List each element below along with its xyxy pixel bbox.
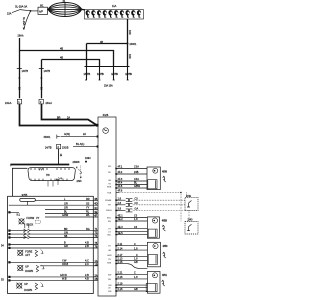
svg-text:1994: 1994 bbox=[85, 157, 91, 160]
pin arrows 4x bbox=[58, 178, 62, 180]
svg-text:1/07B: 1/07B bbox=[125, 73, 132, 76]
svg-text:GRW: GRW bbox=[62, 214, 69, 217]
motor M2 rows bbox=[116, 218, 147, 222]
wire splice2 down bbox=[58, 149, 60, 165]
svg-text:4.B: 4.B bbox=[85, 278, 89, 281]
motor 4/53 M3 bbox=[147, 242, 160, 266]
svg-text:4F.6: 4F.6 bbox=[118, 190, 123, 193]
svg-text:1.8: 1.8 bbox=[134, 276, 138, 279]
connector 7/8 housing bbox=[28, 168, 75, 181]
svg-text:4B: 4B bbox=[60, 56, 63, 59]
wire L3 bbox=[42, 60, 100, 67]
terminal ticks on 4/26 right edge bbox=[115, 169, 117, 292]
dashed ref 2/93 bbox=[80, 166, 82, 178]
node splice dot bbox=[30, 10, 32, 12]
svg-text:1.8: 1.8 bbox=[134, 247, 138, 250]
wire bundle to fusebox bbox=[82, 8, 85, 10]
svg-text:1/07B: 1/07B bbox=[84, 73, 91, 76]
internal bus bbox=[9, 204, 94, 206]
svg-text:2A: 2A bbox=[67, 116, 70, 119]
faint note above 4/26 bbox=[104, 85, 113, 88]
svg-text:DOWN: DOWN bbox=[25, 270, 33, 273]
svg-text:2.11: 2.11 bbox=[118, 243, 123, 246]
svg-text:SL-29A-3A: SL-29A-3A bbox=[15, 6, 28, 9]
clock symbol in 4/26 bbox=[103, 128, 109, 134]
motor 4/58 M1 bbox=[147, 167, 160, 190]
motor 4/51 M4 bbox=[147, 272, 160, 294]
svg-text:11A: 11A bbox=[112, 5, 117, 8]
svg-text:33001: 33001 bbox=[44, 136, 52, 139]
connector 7/8 pins bbox=[31, 168, 69, 170]
svg-text:24/7B: 24/7B bbox=[45, 146, 52, 149]
svg-text:OR.B: OR.B bbox=[62, 263, 68, 266]
svg-text:29Ah: 29Ah bbox=[18, 35, 24, 38]
joystick switch 4 up/down bbox=[17, 283, 22, 288]
svg-text:2A: 2A bbox=[83, 133, 86, 136]
svg-text:BW: BW bbox=[108, 274, 111, 276]
svg-text:20001: 20001 bbox=[130, 43, 138, 46]
left edge pins bbox=[8, 211, 10, 213]
svg-text:2/93: 2/93 bbox=[77, 180, 82, 183]
wire to connector 7/8 bbox=[12, 168, 27, 196]
ECU 4/26 bbox=[103, 113, 109, 117]
conduit squiggle M4 bbox=[162, 280, 166, 286]
node 23908 bbox=[73, 161, 81, 164]
left edge pins lower bbox=[8, 243, 10, 245]
wire L1 horizontal bbox=[87, 43, 128, 45]
svg-text:C: C bbox=[136, 254, 138, 257]
svg-text:4/5B: 4/5B bbox=[162, 219, 167, 222]
connector pigtails bbox=[48, 181, 58, 187]
svg-text:GR: GR bbox=[64, 245, 68, 248]
switch rows mid bbox=[30, 231, 93, 238]
svg-text:4F.1: 4F.1 bbox=[118, 166, 123, 169]
svg-text:BR: BR bbox=[57, 116, 61, 119]
svg-text:24GA: 24GA bbox=[5, 102, 12, 105]
svg-text:A(31): A(31) bbox=[64, 133, 70, 136]
joystick switch 2 fore/aft bbox=[18, 250, 23, 255]
svg-text:1/07B: 1/07B bbox=[97, 73, 104, 76]
wire L1 drop bbox=[86, 44, 88, 67]
svg-text:AFT: AFT bbox=[25, 254, 30, 257]
svg-text:FORW: FORW bbox=[27, 217, 35, 220]
wire from 15A to splice bbox=[12, 10, 31, 13]
svg-text:GR: GR bbox=[64, 202, 68, 205]
node 29Ah bbox=[18, 35, 24, 38]
svg-text:2.19: 2.19 bbox=[118, 282, 123, 285]
terminal on 4/26 bbox=[96, 124, 99, 127]
svg-text:2/40: 2/40 bbox=[188, 219, 193, 222]
svg-text:BNB: BNB bbox=[107, 187, 112, 189]
svg-text:MD: MD bbox=[108, 166, 112, 168]
svg-text:YYY: YYY bbox=[39, 169, 44, 172]
pin labels between boxes bbox=[94, 198, 98, 281]
wire label vertical bbox=[22, 17, 25, 26]
svg-text:UP: UP bbox=[24, 283, 28, 286]
svg-text:2/39: 2/39 bbox=[186, 195, 191, 198]
svg-text:23908: 23908 bbox=[73, 161, 81, 164]
svg-text:16R: 16R bbox=[128, 54, 131, 59]
joystick switch 3 up/down bbox=[18, 265, 23, 270]
svg-text:VO: VO bbox=[108, 245, 111, 247]
joystick switch 1 bbox=[17, 213, 21, 216]
wire seat feed lower bbox=[20, 104, 97, 126]
connector 1/07B bus bar bbox=[85, 66, 130, 68]
svg-text:UP: UP bbox=[25, 266, 29, 269]
conduit squiggle M1 bbox=[163, 176, 167, 182]
svg-text:SBB: SBB bbox=[107, 263, 112, 265]
wire stubs below bus bbox=[86, 67, 88, 81]
svg-text:W.B: W.B bbox=[62, 278, 67, 281]
svg-text:1.8: 1.8 bbox=[118, 197, 122, 200]
wire fuse drop bbox=[127, 19, 129, 44]
wire splice to fusebox feed bbox=[31, 10, 39, 12]
wire seat feed upper bbox=[42, 104, 97, 125]
svg-text:4F.2: 4F.2 bbox=[118, 171, 123, 174]
svg-text:VY: VY bbox=[36, 217, 40, 220]
splice row 33001 bbox=[44, 136, 52, 139]
svg-text:24B: 24B bbox=[134, 171, 139, 174]
svg-text:RD: RD bbox=[108, 172, 112, 174]
svg-text:2.8: 2.8 bbox=[118, 202, 122, 205]
svg-text:DOWN: DOWN bbox=[24, 289, 32, 292]
svg-text:RR: RR bbox=[86, 198, 90, 201]
svg-text:15A 10A: 15A 10A bbox=[104, 85, 113, 88]
pill stub bbox=[27, 202, 29, 206]
motor M1 rows bbox=[116, 169, 147, 175]
svg-text:C3A: C3A bbox=[134, 166, 139, 169]
svg-text:1.8: 1.8 bbox=[134, 218, 138, 221]
svg-text:TNA: TNA bbox=[107, 191, 112, 194]
svg-text:4E.2: 4E.2 bbox=[118, 218, 124, 221]
relay 2/40 bbox=[188, 219, 193, 222]
svg-text:GB: GB bbox=[134, 261, 138, 264]
svg-text:2.17: 2.17 bbox=[118, 254, 123, 257]
fuse box 11A bbox=[112, 5, 117, 8]
svg-text:RG: RG bbox=[86, 228, 90, 231]
contact bank chevrons bbox=[24, 229, 27, 239]
pair rows to relay bbox=[116, 200, 126, 210]
wire left vertical 1 bbox=[19, 51, 21, 99]
svg-text:GB: GB bbox=[134, 288, 138, 291]
svg-text:4B: 4B bbox=[100, 41, 103, 44]
switch unit 3/55 bbox=[22, 193, 28, 197]
node 15A battery feed label bbox=[7, 13, 12, 16]
stub wires between boxes bbox=[93, 201, 98, 217]
svg-text:3.8: 3.8 bbox=[118, 208, 122, 211]
svg-text:2.21: 2.21 bbox=[118, 272, 123, 275]
wire branch down to 29Ah bbox=[24, 11, 31, 30]
svg-text:24GA: 24GA bbox=[46, 102, 53, 105]
svg-text:2.B: 2.B bbox=[85, 245, 89, 248]
svg-text:4/51: 4/51 bbox=[162, 274, 167, 277]
svg-text:C: C bbox=[134, 272, 136, 275]
svg-text:16R: 16R bbox=[128, 30, 131, 35]
svg-text:WL: WL bbox=[86, 214, 90, 217]
inline connector pairs bbox=[126, 199, 133, 202]
motor M3 rows bbox=[116, 246, 147, 250]
svg-text:2.C: 2.C bbox=[85, 263, 89, 266]
switch rows lower bbox=[11, 245, 94, 249]
svg-text:LG: LG bbox=[108, 231, 111, 233]
node junction 20001 bbox=[127, 43, 129, 45]
svg-text:15A: 15A bbox=[7, 13, 12, 16]
svg-text:2.18: 2.18 bbox=[118, 276, 123, 279]
svg-text:1/07B: 1/07B bbox=[44, 70, 51, 73]
switch rows upper bbox=[35, 201, 93, 217]
svg-text:WNAB: WNAB bbox=[105, 199, 112, 202]
svg-text:1/07B: 1/07B bbox=[22, 70, 29, 73]
svg-text:4/26: 4/26 bbox=[103, 113, 109, 117]
svg-text:BN: BN bbox=[108, 221, 111, 223]
svg-text:2.15: 2.15 bbox=[118, 261, 123, 264]
svg-text:SB: SB bbox=[64, 235, 68, 238]
svg-text:WBGL: WBGL bbox=[106, 210, 113, 212]
svg-text:4/58: 4/58 bbox=[162, 171, 167, 174]
wire junction to bus bbox=[127, 44, 129, 67]
motor M4 rows bbox=[116, 273, 147, 275]
splice 24GA 1 bbox=[5, 102, 12, 105]
svg-text:2.14: 2.14 bbox=[118, 247, 123, 250]
svg-text:GNB: GNB bbox=[107, 255, 112, 257]
svg-text:YY: YY bbox=[86, 207, 90, 210]
svg-text:1/07B: 1/07B bbox=[111, 73, 118, 76]
connector feet left pair bbox=[18, 77, 42, 79]
svg-text:9:1: 9:1 bbox=[17, 213, 21, 216]
4/26 internal labels column bbox=[105, 166, 113, 293]
svg-text:SL-29A: SL-29A bbox=[22, 17, 25, 26]
dotted verticals bbox=[180, 193, 182, 222]
ground rail wire bbox=[10, 164, 69, 166]
pill element bbox=[20, 198, 36, 201]
svg-text:7/8: 7/8 bbox=[46, 174, 50, 177]
svg-text:OR: OR bbox=[64, 207, 68, 210]
connector 6/1 bbox=[40, 4, 44, 7]
svg-text:GBW: GBW bbox=[134, 185, 141, 188]
svg-text:4/53: 4/53 bbox=[163, 245, 168, 248]
svg-text:BACK: BACK bbox=[27, 224, 34, 227]
dotted row bbox=[116, 192, 119, 194]
fuse elements bbox=[86, 10, 141, 17]
cable bundle ellipse bbox=[48, 3, 82, 17]
wire L2 from 29Ah bbox=[20, 38, 114, 67]
svg-text:A/P: A/P bbox=[39, 10, 43, 13]
svg-text:B1 A(1): B1 A(1) bbox=[76, 143, 85, 146]
svg-text:SS: SS bbox=[86, 202, 90, 205]
wire left vertical 2 bbox=[41, 60, 43, 99]
svg-text:4E.5: 4E.5 bbox=[118, 232, 124, 235]
connector 1/07B left pair bbox=[17, 68, 22, 70]
splice 24GA 2 bbox=[39, 99, 43, 104]
wire label SL-29A-3A bbox=[15, 6, 28, 9]
conduit squiggle M3 bbox=[163, 252, 167, 258]
connector labels 1/07B row bbox=[84, 73, 133, 76]
relay 2/39 bbox=[186, 195, 191, 198]
svg-text:4E.3: 4E.3 bbox=[118, 226, 124, 229]
svg-text:4B: 4B bbox=[60, 48, 63, 51]
motor 4/5B M2 bbox=[147, 217, 159, 238]
node bundle tap bbox=[64, 3, 66, 17]
arrow 7/8 bbox=[78, 170, 82, 174]
splice row 23GB bbox=[45, 146, 52, 149]
svg-text:23GB: 23GB bbox=[62, 146, 69, 149]
conduit squiggle M2 bbox=[162, 225, 166, 231]
svg-text:4F.5: 4F.5 bbox=[118, 185, 123, 188]
svg-text:C: C bbox=[134, 243, 136, 246]
svg-text:2.16: 2.16 bbox=[118, 288, 123, 291]
connector terminal feet bbox=[85, 79, 129, 81]
